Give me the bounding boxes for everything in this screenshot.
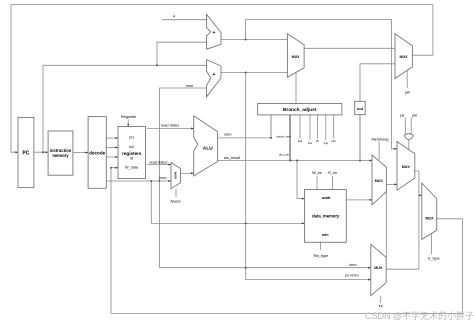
svg-text:rs2: rs2 bbox=[129, 145, 134, 149]
svg-text:addr: addr bbox=[322, 195, 331, 200]
svg-text:Branch_adjust: Branch_adjust bbox=[283, 107, 317, 113]
svg-text:PC: PC bbox=[22, 151, 29, 157]
svg-text:CSDN @不学无术的小胖子 .: CSDN @不学无术的小胖子 . bbox=[365, 310, 474, 321]
svg-text:imm: imm bbox=[159, 176, 166, 180]
svg-text:win: win bbox=[321, 232, 329, 237]
svg-text:alu_result: alu_result bbox=[224, 156, 241, 160]
svg-text:W_en: W_en bbox=[312, 171, 322, 175]
svg-text:zero: zero bbox=[224, 133, 231, 137]
svg-text:MUX: MUX bbox=[174, 172, 178, 180]
svg-text:alu_cmp: alu_cmp bbox=[279, 153, 289, 157]
svg-text:jalr: jalr bbox=[411, 113, 418, 117]
svg-text:bge: bge bbox=[324, 141, 329, 145]
svg-text:imm: imm bbox=[349, 263, 356, 267]
svg-text:+: + bbox=[213, 30, 216, 36]
svg-text:read data2: read data2 bbox=[149, 160, 167, 164]
svg-text:out: out bbox=[357, 106, 364, 111]
svg-text:MUX: MUX bbox=[400, 55, 409, 59]
svg-text:read data1: read data1 bbox=[161, 124, 179, 128]
svg-text:bltu: bltu bbox=[332, 139, 337, 143]
svg-text:MUX: MUX bbox=[375, 179, 384, 183]
svg-text:branch_zero: branch_zero bbox=[276, 135, 291, 139]
svg-text:decode: decode bbox=[89, 150, 106, 155]
svg-text:MUX: MUX bbox=[426, 217, 435, 221]
svg-text:MUX: MUX bbox=[374, 266, 383, 270]
svg-text:Rw_type: Rw_type bbox=[314, 254, 329, 258]
svg-text:data_memory: data_memory bbox=[312, 214, 340, 219]
svg-text:beq: beq bbox=[298, 139, 303, 143]
svg-text:jalr: jalr bbox=[404, 90, 411, 94]
svg-text:+: + bbox=[213, 72, 216, 78]
svg-text:MUX: MUX bbox=[292, 55, 301, 59]
svg-text:memory: memory bbox=[52, 153, 69, 158]
svg-text:MUX: MUX bbox=[402, 165, 411, 169]
svg-text:lui: lui bbox=[379, 304, 383, 308]
svg-text:bne: bne bbox=[308, 141, 313, 145]
svg-text:pc+imm: pc+imm bbox=[345, 274, 358, 278]
svg-text:Memtoreg: Memtoreg bbox=[371, 138, 388, 142]
svg-text:rs1: rs1 bbox=[129, 135, 134, 139]
svg-text:4: 4 bbox=[173, 15, 175, 19]
svg-text:registers: registers bbox=[122, 151, 142, 156]
svg-text:W_data: W_data bbox=[125, 166, 139, 170]
svg-text:ALU: ALU bbox=[203, 145, 213, 151]
svg-text:blt: blt bbox=[316, 139, 319, 143]
svg-text:rd: rd bbox=[130, 157, 133, 161]
svg-text:jal: jal bbox=[399, 113, 404, 117]
svg-text:imm: imm bbox=[186, 84, 193, 88]
svg-text:R_en: R_en bbox=[328, 171, 337, 175]
svg-text:Alusrc: Alusrc bbox=[170, 199, 181, 203]
svg-text:Regwrite: Regwrite bbox=[121, 114, 136, 119]
svg-text:U_type: U_type bbox=[428, 256, 440, 260]
